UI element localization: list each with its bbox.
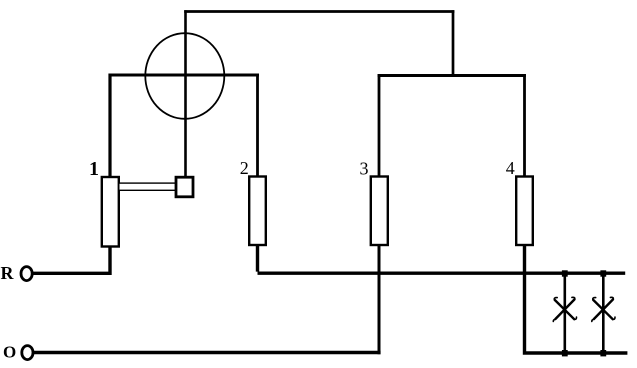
fuse 3 [371,177,388,246]
linkage double line from fuse 1 to coil box [119,183,177,190]
wire right horizontal feeder [378,74,526,77]
wire R line: fuse 2 down and right to lamps [258,243,626,273]
junction dot lamp2/bottom rail [600,350,606,356]
wire from terminal R up to fuse 1 [31,244,110,273]
wire O line [32,351,381,354]
lamp L2 [592,297,615,321]
wire upper vertical of fuse 3 [378,74,381,179]
wire lamp branch 1 [563,272,566,354]
wire upper vertical of fuse 2 [256,74,259,180]
fuse 1 [102,177,119,247]
svg-text:3: 3 [360,159,369,179]
junction dot lamp2/R line [600,270,606,276]
wire left cross horizontal through meter [109,74,260,77]
svg-text:O: O [3,343,16,362]
wire lower vertical of fuse 3 to O line [378,243,381,354]
fuse 2 [249,177,266,246]
svg-text:R: R [1,263,15,283]
svg-text:4: 4 [506,158,515,178]
wire upper vertical of fuse 1 [108,74,111,180]
wire vertical through meter M [184,10,187,184]
junction dot lamp1/bottom rail [562,350,568,356]
wire lamp branch 2 [602,272,605,354]
junction dot lamp1/R line [562,270,568,276]
lamp L1 [553,297,576,321]
wire top horizontal [184,10,454,13]
terminal O [22,346,33,360]
wire fuse 4 down and bottom rail [525,243,628,353]
wire upper vertical of fuse 4 [523,74,526,179]
fuse 4 [516,177,533,246]
meter M (circle) [145,33,224,119]
coil box under meter [176,177,193,197]
svg-text:2: 2 [240,158,249,178]
terminal R [21,267,32,281]
wire right drop from top wire [452,10,455,77]
svg-text:1: 1 [89,158,99,180]
